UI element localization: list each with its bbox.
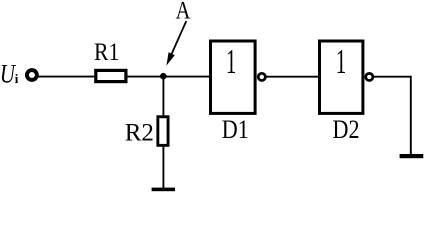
gate D1 (IEC inverter box) <box>211 41 256 113</box>
inverter bubble D1 output <box>258 73 265 80</box>
wire D1 output to D2 input <box>267 76 320 78</box>
wire node A down to R2 <box>162 76 164 117</box>
wire down to right ground <box>410 76 412 155</box>
wire R2 to ground <box>162 145 164 188</box>
terminal Ui (open circle) <box>27 70 37 80</box>
wire D2 output to right corner <box>374 76 411 78</box>
svg-text:D1: D1 <box>222 116 249 144</box>
svg-text:R2: R2 <box>125 120 154 147</box>
svg-text:1: 1 <box>336 43 347 82</box>
inverter bubble D2 output <box>366 73 373 80</box>
svg-text:i: i <box>15 71 19 86</box>
resistor R1 <box>96 70 126 81</box>
ground (right output) <box>400 154 424 158</box>
svg-text:R1: R1 <box>94 39 119 67</box>
arrow pointing to node A <box>172 21 187 54</box>
wire R1 to D1 input <box>127 76 210 78</box>
svg-text:1: 1 <box>226 43 237 82</box>
resistor R2 <box>158 117 168 146</box>
ground (under R2) <box>152 188 175 192</box>
svg-text:D2: D2 <box>333 116 360 144</box>
gate D2 (IEC inverter box) <box>320 41 363 113</box>
node A (junction dot) <box>160 73 167 80</box>
svg-text:A: A <box>176 0 191 24</box>
wire terminal to R1 <box>38 76 96 78</box>
